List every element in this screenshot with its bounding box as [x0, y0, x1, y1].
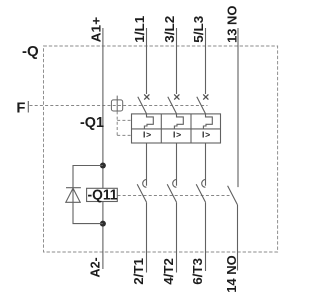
breaker box -Q1 [132, 114, 221, 143]
aux contact arm [228, 186, 238, 205]
pole 2 contact arm [168, 97, 177, 114]
pole 3 contact arm [197, 97, 206, 114]
wire A1-A2 coil line [102, 28, 104, 269]
pole 1 breaker function X [144, 94, 149, 99]
pole 1 thermal overload release [144, 114, 153, 129]
svg-text:-Q11: -Q11 [88, 187, 118, 204]
coil -Q11 box [87, 188, 118, 201]
svg-text:14 NO: 14 NO [225, 255, 239, 293]
button stem [116, 96, 118, 112]
pole 3 lower contact hook [202, 179, 206, 187]
svg-text:1/L1: 1/L1 [132, 16, 147, 43]
breaker box vertical divider 2 [190, 114, 192, 143]
pole 3 lower contact arm [196, 184, 205, 202]
pole 2 thermal overload release [174, 114, 183, 129]
pole 2 lower contact arm [167, 184, 176, 202]
pole 1 contact arm [138, 97, 147, 114]
svg-text:A2-: A2- [89, 257, 103, 277]
pole 3 breaker function X [203, 94, 208, 99]
wire diode branch [73, 166, 103, 224]
pole 3 wire below box [205, 143, 207, 186]
dashed linkage button to releases [116, 111, 118, 135]
pole 1 lower contact arm [137, 184, 146, 202]
pole 2 wire below box [176, 143, 178, 186]
aux contact: wire 13 NO top [237, 28, 239, 187]
test/trip button [111, 100, 122, 111]
svg-text:3/L2: 3/L2 [162, 16, 177, 43]
svg-text:-Q1: -Q1 [80, 114, 104, 131]
svg-text:2/T1: 2/T1 [132, 258, 146, 285]
pole 1 lower contact hook [143, 179, 147, 187]
svg-text:4/T2: 4/T2 [162, 258, 176, 285]
node junction dot upper [100, 163, 106, 169]
breaker box vertical divider 1 [160, 114, 162, 143]
diode V1 (across coil) [66, 188, 81, 203]
aux wire 14 NO bottom [237, 205, 239, 271]
pole 2: wire 3/L2 top [176, 28, 178, 94]
pole 1 wire 2/T1 bottom [146, 202, 148, 272]
trip linkage dashed line from F [30, 105, 208, 107]
pole 3 thermal overload release [203, 114, 212, 129]
svg-text:I>: I> [173, 130, 182, 140]
node junction dot lower [100, 221, 106, 227]
pole 1 wire below box [146, 143, 148, 186]
svg-text:A1+: A1+ [89, 17, 104, 43]
svg-text:6/T3: 6/T3 [191, 258, 205, 285]
pole 1: wire 1/L1 top [146, 28, 148, 94]
enclosure -Q dashed box [44, 46, 278, 252]
pole 2 wire 4/T2 bottom [176, 202, 178, 272]
pole 3: wire 5/L3 top [205, 28, 207, 94]
svg-text:-Q: -Q [22, 43, 39, 60]
terminal tick at F [27, 101, 29, 113]
breaker box horizontal divider [132, 128, 221, 130]
pole 2 lower contact hook [173, 179, 177, 187]
svg-text:I>: I> [143, 130, 152, 140]
pole 2 breaker function X [174, 94, 179, 99]
svg-text:F: F [16, 100, 25, 116]
mechanical linkage dashed line (release to contacts) [118, 195, 230, 197]
pole 3 wire 6/T3 bottom [205, 202, 207, 271]
svg-text:I>: I> [202, 130, 211, 140]
svg-text:13 NO: 13 NO [224, 6, 239, 43]
svg-text:5/L3: 5/L3 [191, 16, 206, 43]
